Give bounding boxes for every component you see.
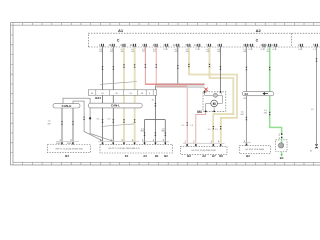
wire splice right leg	[164, 120, 166, 143]
wire CAN-H bus riser A	[63, 98, 113, 141]
wire GE pin14 A1 to K9	[134, 47, 136, 141]
pin 1 connector C at x=269.7	[268, 44, 269, 47]
svg-text:B4: B4	[280, 156, 284, 160]
sensor B4 dashed box with pump symbol	[275, 133, 287, 160]
wire CAN-L bus to B4 module	[72, 108, 74, 141]
svg-text:M: M	[310, 151, 312, 153]
svg-text:GN: GN	[264, 113, 268, 115]
wire GR pin12 A1 to shield	[177, 47, 179, 84]
pin 6 connector C at x=124.0	[123, 44, 124, 47]
wire GE pin5 A1 routed right of M4	[189, 47, 237, 143]
module K9 long dashed box	[98, 139, 173, 158]
pin 3 connector C at x=166.7	[165, 44, 166, 47]
connector strip X	[88, 90, 156, 100]
svg-text:E7: E7	[212, 154, 216, 158]
wire GR pin3 A2 to B3	[245, 47, 247, 142]
border frame	[10, 23, 320, 166]
svg-text:B4: B4	[65, 154, 69, 158]
twisted-pair mark upper	[100, 81, 137, 84]
thermal element	[213, 93, 217, 97]
svg-text:H4 PTC CL45 (B) ZSB 200M /1-3: H4 PTC CL45 (B) ZSB 200M /1-3	[109, 148, 141, 150]
twisted-pair mark lower	[101, 124, 134, 127]
wire RT M4 motor return	[196, 111, 206, 143]
pin 5 connector C at x=316.5	[315, 44, 316, 47]
svg-text:A2: A2	[256, 28, 262, 33]
CAN-L bus bar	[88, 103, 142, 108]
wire GE pin7 A1 routed right of M4	[209, 47, 233, 143]
pin 5 connector C at x=188.9	[187, 44, 188, 47]
svg-text:M: M	[213, 102, 216, 106]
pin 7 connector C at x=209.5	[208, 44, 209, 47]
svg-text:A1: A1	[118, 28, 124, 33]
motor box internal wiring	[205, 92, 223, 111]
control unit A2 divider	[291, 33, 293, 47]
module M3 box right	[239, 140, 270, 158]
motor box pins	[204, 91, 221, 112]
wire CAN-L pin16 A1 to K9	[112, 47, 114, 141]
pin 2 of pump B4	[281, 133, 282, 135]
svg-text:H4 PDX 22 B-200M: H4 PDX 22 B-200M	[246, 149, 265, 151]
pin 6 connector C at x=275.7	[274, 44, 275, 47]
wire pin5 A2 to off-page right	[315, 47, 317, 144]
splice bar	[144, 119, 165, 121]
ground module B4 box	[47, 139, 90, 158]
wire CAN-H bus to B4 module	[61, 108, 63, 141]
svg-text:B2: B2	[187, 154, 191, 158]
pump symbol B4	[278, 143, 283, 148]
pin 9 connector C at x=156.2	[155, 44, 156, 47]
pin 16 connector C at x=113.3	[112, 44, 113, 47]
pin 8 connector C at x=251.7	[250, 44, 251, 47]
pin 1 connector C at x=145.3	[144, 44, 145, 47]
motor M	[211, 100, 218, 107]
svg-text:B3: B3	[246, 154, 250, 158]
pin 1 of pump B4	[281, 137, 282, 139]
splice junction node	[155, 119, 157, 121]
svg-text:M4: M4	[197, 110, 202, 114]
wire GN pin1 A2 to B4 pump	[270, 47, 282, 134]
wire CAN-H pin4 A1 to K9	[101, 47, 103, 141]
pin 4 connector C at x=102.5	[101, 44, 102, 47]
wire GR pin2 A1 to M4 switch	[219, 47, 221, 92]
svg-text:A2: A2	[202, 154, 206, 158]
off-page arrow bar	[242, 92, 274, 100]
svg-text:H4 PDX 32 (B) ZSB 200M: H4 PDX 32 (B) ZSB 200M	[192, 150, 216, 152]
svg-text:B24: B24	[95, 96, 101, 100]
svg-text:SW: SW	[161, 131, 164, 133]
pin 12 connector C at x=177.8	[176, 44, 177, 47]
svg-text:K2: K2	[245, 92, 249, 96]
wire RT pin1 A1 to M4	[145, 47, 204, 84]
svg-text:C: C	[117, 38, 120, 42]
svg-text:SW: SW	[141, 131, 144, 133]
svg-text:B2: B2	[164, 154, 168, 158]
pin 14 connector C at x=134.6	[133, 44, 134, 47]
svg-text:CAN-L: CAN-L	[111, 104, 120, 108]
control unit pin row dashed edge	[88, 46, 320, 48]
wire shield drop to strip	[154, 86, 156, 90]
module bottom-center box	[180, 141, 227, 159]
wire RT 2 in shield	[156, 85, 187, 87]
pin 2 connector C at x=220.4	[219, 44, 220, 47]
svg-text:A3: A3	[143, 154, 147, 158]
pin 13 connector C at x=198.8	[197, 44, 198, 47]
pins of connector C rows	[99, 44, 318, 53]
pin 3 connector C at x=246.4	[245, 44, 246, 47]
right edge wire connector	[310, 144, 318, 153]
wire RT pin9 A1 to bottom module	[156, 47, 187, 143]
wire strip to splice	[154, 95, 156, 143]
svg-text:GR: GR	[240, 114, 244, 116]
pin 4 connector C at x=264.0	[262, 44, 263, 47]
wire CAN-H bus riser B	[73, 101, 103, 141]
motor box M4 dashed outline	[203, 92, 226, 112]
shielded cable sheath	[156, 83, 204, 87]
control unit A1 dashed box	[88, 33, 320, 47]
svg-text:H4PTC CL45 (B)-ZSGM 20M: H4PTC CL45 (B)-ZSGM 20M	[55, 148, 82, 150]
wire RT in shield	[145, 83, 204, 85]
svg-text:CAN-H: CAN-H	[62, 104, 72, 108]
svg-text:B1: B1	[155, 154, 159, 158]
pin 2 connector C at x=301.5	[300, 44, 301, 47]
wire GE pin6 A1 to K9	[123, 47, 125, 141]
wire gauge labels	[47, 100, 314, 133]
CAN-H bus bar	[53, 104, 80, 108]
svg-text:D9: D9	[219, 154, 223, 158]
inline connectors	[61, 58, 318, 135]
svg-text:C: C	[256, 38, 259, 42]
wire splice left leg	[143, 120, 145, 143]
svg-text:K1: K1	[125, 154, 129, 158]
red X splice at motor box corner	[204, 88, 208, 92]
